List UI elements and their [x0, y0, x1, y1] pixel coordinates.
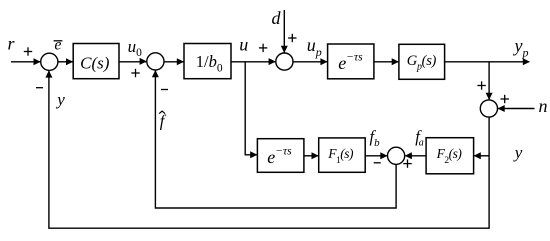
- svg-text:r: r: [7, 34, 15, 54]
- svg-text:u: u: [239, 35, 248, 55]
- svg-text:n: n: [539, 96, 548, 116]
- svg-text:y: y: [55, 90, 65, 109]
- svg-text:e: e: [54, 37, 61, 54]
- svg-text:y: y: [513, 143, 523, 162]
- svg-text:d: d: [272, 8, 282, 28]
- svg-text:C(s): C(s): [80, 53, 110, 72]
